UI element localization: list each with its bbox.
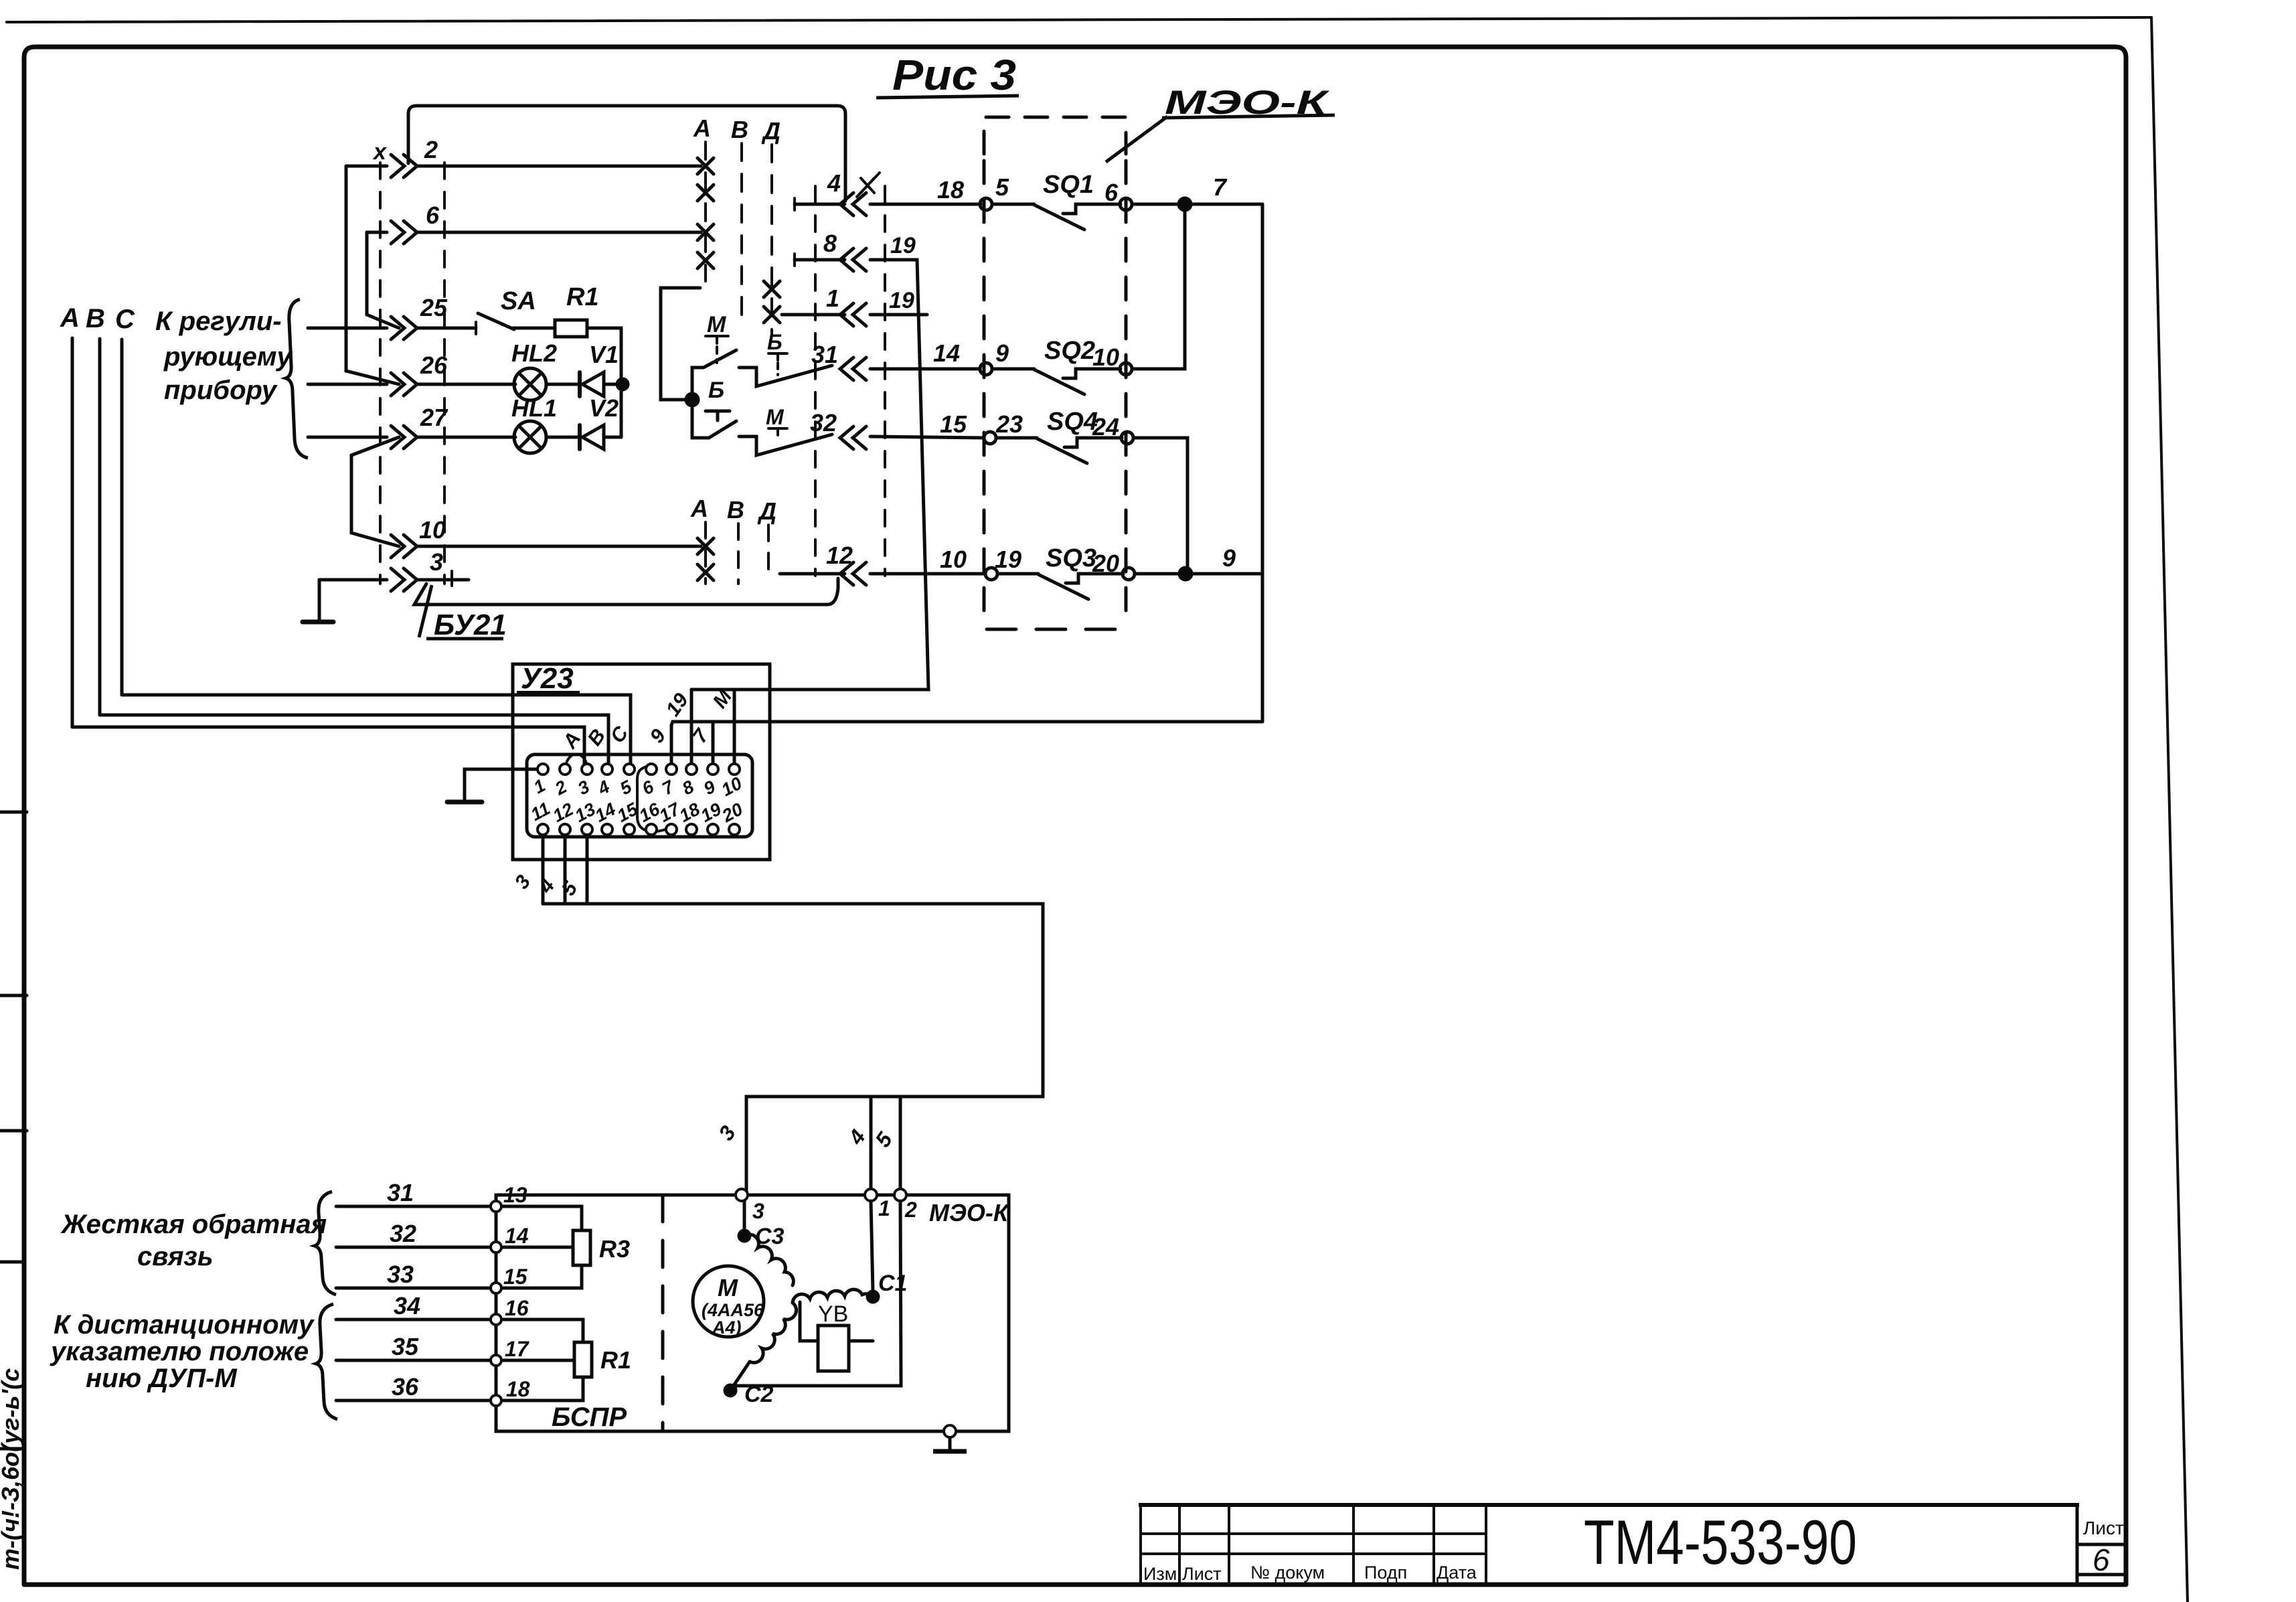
- fold tick 1: [0, 811, 27, 814]
- wire 17: [501, 1359, 574, 1362]
- pin 6 chevron: [391, 221, 417, 244]
- pin 8 tail tick: [793, 254, 796, 266]
- U23 pin strip: [527, 754, 752, 837]
- svg-text:Рис 3: Рис 3: [892, 51, 1016, 99]
- svg-text:x: x: [372, 139, 388, 165]
- brace for regulator wires: [286, 299, 308, 458]
- pin 4 chevron: [840, 193, 866, 216]
- svg-text:прибору: прибору: [164, 376, 278, 405]
- outer sheet top line: [7, 17, 2151, 22]
- wire 31: [336, 1205, 491, 1208]
- contact cross row6: [698, 224, 714, 240]
- contact M right tick: [768, 428, 787, 435]
- wire 36: [336, 1399, 491, 1403]
- pin 7 riser (net 9): [670, 725, 673, 765]
- MEO-K dashed box: [984, 117, 1126, 154]
- fold tick 3: [0, 1129, 27, 1133]
- wire V1 to junction: [604, 383, 623, 386]
- svg-text:К дистанционному: К дистанционному: [54, 1310, 315, 1340]
- ground at row3: [318, 580, 321, 621]
- lamp HL2: [514, 368, 546, 400]
- pin 12 chevron: [840, 562, 866, 585]
- group bus 3-4-5 to motor: [543, 904, 1043, 1190]
- svg-text:В: В: [86, 304, 105, 333]
- terminal 23: [984, 432, 996, 444]
- fold tick 4: [0, 1261, 24, 1264]
- wire V2 to junction: [604, 436, 621, 439]
- svg-text:31: 31: [811, 341, 838, 368]
- drop wire 5: [899, 1097, 902, 1189]
- svg-text:20: 20: [1092, 550, 1119, 577]
- svg-text:4: 4: [827, 169, 841, 197]
- BSPR terminals: [491, 1189, 956, 1437]
- contact cross row2: [698, 158, 714, 174]
- wire net from pin3 to connector 12: [414, 578, 838, 605]
- pin 13 drop: [586, 835, 589, 904]
- svg-text:Изм.: Изм.: [1143, 1564, 1182, 1584]
- outer sheet right line: [2151, 17, 2188, 1602]
- resistor R1 (upper): [555, 320, 587, 337]
- terminal 9: [980, 363, 992, 375]
- wire row12 to terminal: [870, 572, 985, 576]
- svg-text:9: 9: [995, 339, 1009, 367]
- pin 27 chevron: [391, 426, 417, 449]
- svg-text:М: М: [766, 405, 785, 429]
- svg-text:Лист: Лист: [1182, 1564, 1222, 1584]
- svg-text:В: В: [727, 496, 744, 524]
- contact column A dashed: [704, 142, 707, 281]
- switch SQ2: [992, 368, 1034, 371]
- dashed divider: [661, 1195, 665, 1431]
- contact column D dashed: [770, 145, 773, 335]
- pin 1 chevron: [840, 303, 866, 326]
- jumper pins 2-3: [566, 754, 586, 764]
- terminal 5: [980, 198, 992, 210]
- wire SQ3 to node9: [1135, 572, 1179, 576]
- wire HL2 to V1: [546, 383, 581, 386]
- svg-text:R1: R1: [566, 283, 599, 311]
- node bracket junction: [686, 394, 698, 406]
- pin 4 tail: [795, 203, 845, 206]
- svg-text:34: 34: [394, 1292, 420, 1319]
- svg-text:SQ2: SQ2: [1044, 337, 1095, 365]
- svg-text:3: 3: [752, 1199, 764, 1223]
- svg-text:33: 33: [387, 1261, 414, 1288]
- svg-text:ТМ4-533-90: ТМ4-533-90: [1584, 1507, 1857, 1577]
- svg-text:27: 27: [420, 404, 448, 431]
- contact M right (row32): [739, 434, 832, 455]
- wire R3 to 15: [501, 1265, 582, 1288]
- switch SA: [478, 313, 514, 329]
- wire 14: [501, 1246, 573, 1249]
- wire terminal2 down and to C2: [736, 1201, 901, 1386]
- svg-text:Б: Б: [767, 330, 783, 354]
- pin 2 chevron: [391, 155, 417, 177]
- pin 12 tail: [780, 572, 845, 576]
- node 7 junction: [1179, 198, 1191, 210]
- wire phase A vertical: [71, 338, 74, 727]
- svg-text:14: 14: [933, 339, 960, 367]
- svg-text:HL1: HL1: [511, 394, 557, 422]
- contact cross D2: [764, 307, 780, 323]
- svg-text:36: 36: [392, 1373, 419, 1400]
- terminal 24: [1121, 432, 1133, 444]
- contact B lower: [692, 401, 709, 438]
- wire row3 stub: [418, 578, 469, 582]
- svg-text:т-(ч!-З,6о(уг-ь'(с: т-(ч!-З,6о(уг-ь'(с: [0, 1368, 24, 1570]
- svg-text:HL2: HL2: [511, 339, 557, 367]
- terminal 20: [1123, 568, 1135, 580]
- svg-text:R1: R1: [600, 1346, 631, 1374]
- wire SQ1 to node 7: [1132, 203, 1179, 206]
- svg-text:А: А: [60, 303, 80, 333]
- node 9 junction: [1179, 568, 1192, 580]
- svg-text:35: 35: [392, 1333, 419, 1360]
- contact M upper tick: [706, 336, 728, 343]
- wire SQ1 row left: [870, 203, 981, 206]
- wire row10 to contact column A: [418, 545, 701, 548]
- svg-text:М: М: [707, 312, 726, 337]
- pin 25 chevron: [391, 317, 417, 339]
- svg-text:Б: Б: [708, 378, 724, 403]
- svg-text:А: А: [690, 495, 708, 522]
- pin 3 chevron: [391, 568, 417, 591]
- wire row27 to lamp HL1: [418, 436, 515, 439]
- svg-text:9: 9: [1222, 544, 1236, 572]
- ground wire to pin1: [465, 769, 538, 801]
- svg-text:12: 12: [826, 542, 853, 569]
- sheet number box: [2077, 1505, 2126, 1585]
- resistor R1 (BSPR): [574, 1342, 592, 1377]
- svg-text:А: А: [693, 114, 711, 142]
- lower contact cross mate: [698, 564, 714, 580]
- contact B lower tick: [706, 411, 730, 420]
- wire row25 stub: [418, 327, 476, 330]
- winding node to C2: [750, 1303, 797, 1362]
- motor M circle: [693, 1266, 764, 1337]
- svg-text:нию ДУП-М: нию ДУП-М: [86, 1364, 238, 1393]
- wire 34: [336, 1318, 491, 1321]
- svg-text:SQ1: SQ1: [1043, 171, 1094, 199]
- pin 8 chevron: [840, 248, 866, 271]
- svg-text:5: 5: [995, 173, 1009, 201]
- svg-text:14: 14: [505, 1224, 529, 1248]
- pin 12 drop: [564, 835, 567, 904]
- node junction V1: [617, 379, 628, 390]
- diode V2: [582, 425, 604, 449]
- svg-text:В: В: [731, 116, 748, 143]
- svg-text:С3: С3: [755, 1224, 785, 1249]
- pin 1 tail: [782, 313, 845, 317]
- svg-text:19: 19: [889, 288, 914, 313]
- svg-text:К регули-: К регули-: [155, 307, 282, 336]
- svg-text:Жесткая обратная: Жесткая обратная: [60, 1210, 327, 1239]
- wire pin2 down link: [346, 166, 399, 384]
- contact cross row2 mate: [698, 185, 714, 201]
- winding node to C1: [793, 1289, 873, 1303]
- diode V1: [582, 372, 604, 396]
- pin 8 riser (net 19): [690, 690, 693, 765]
- node C1: [868, 1291, 878, 1302]
- pin 8 tail: [795, 258, 845, 262]
- BSPR/MEO-K box: [496, 1195, 1009, 1431]
- svg-text:6: 6: [2093, 1542, 2110, 1577]
- svg-text:С: С: [115, 305, 135, 334]
- fold tick 2: [0, 994, 27, 997]
- svg-text:7: 7: [1213, 173, 1228, 201]
- fold tick 5: [0, 1447, 24, 1451]
- wire SQ4 down to SQ3: [1133, 438, 1187, 574]
- U23 box: [513, 664, 770, 860]
- wire node7 to right bus: [1191, 203, 1262, 206]
- node C2: [725, 1385, 736, 1396]
- wire node7 down to SQ2: [1132, 210, 1185, 369]
- wire phase B vertical: [98, 339, 102, 715]
- net 9 horizontal bus: [671, 722, 1262, 725]
- node C3: [739, 1230, 750, 1241]
- pin 9 riser: [712, 722, 715, 765]
- dashed boundary left: [814, 186, 817, 576]
- svg-text:3: 3: [430, 548, 443, 576]
- svg-text:М: М: [718, 1274, 738, 1301]
- pin 26 chevron: [391, 373, 417, 396]
- wire row27 input: [308, 436, 387, 439]
- svg-text:V2: V2: [589, 394, 619, 422]
- dashed column right of BU21: [443, 163, 446, 584]
- jumper pins 6-17: [637, 767, 665, 831]
- svg-text:связь: связь: [137, 1242, 214, 1271]
- svg-text:SA: SA: [501, 287, 536, 315]
- svg-text:А4): А4): [712, 1317, 742, 1338]
- drop wire 4: [870, 1097, 873, 1189]
- svg-text:6: 6: [426, 202, 440, 229]
- title block top edge: [1141, 1503, 2077, 1507]
- lamp HL1: [514, 421, 546, 453]
- svg-text:23: 23: [995, 410, 1023, 438]
- pin 31 chevron: [840, 357, 866, 380]
- wire row32 to terminal: [870, 436, 984, 438]
- svg-text:18: 18: [937, 176, 964, 204]
- svg-text:31: 31: [387, 1179, 414, 1206]
- contact cross D1: [764, 281, 780, 297]
- terminal 10: [1120, 363, 1132, 375]
- tick row25 stub end: [475, 322, 477, 334]
- svg-text:R3: R3: [599, 1235, 630, 1263]
- terminals on top edge: [736, 1189, 748, 1201]
- wire row1 joins riser: [870, 313, 927, 317]
- svg-text:БУ21: БУ21: [434, 609, 507, 641]
- contact cross row6 mate: [698, 252, 714, 268]
- svg-text:Д: Д: [761, 117, 781, 145]
- wire phase C vertical: [120, 339, 124, 695]
- wire 35: [336, 1359, 491, 1362]
- svg-text:YB: YB: [818, 1301, 848, 1327]
- lower contact cross row10: [698, 538, 714, 554]
- switch SQ3: [997, 572, 1038, 576]
- svg-text:SQ4: SQ4: [1047, 408, 1098, 436]
- svg-text:6: 6: [1104, 179, 1119, 206]
- svg-text:24: 24: [1092, 413, 1119, 440]
- svg-text:С1: С1: [878, 1271, 907, 1296]
- MEO-K leader line: [1106, 116, 1167, 162]
- pin 4 tail tick: [793, 198, 796, 210]
- wire 32: [336, 1246, 491, 1249]
- terminal 19: [985, 568, 997, 580]
- svg-text:17: 17: [505, 1337, 530, 1361]
- wire net19 from row8 down to U23: [691, 260, 928, 690]
- wire 13 to R3: [501, 1206, 582, 1230]
- svg-text:1: 1: [826, 285, 839, 312]
- wire pin6 tail: [367, 231, 387, 234]
- wire node9 to right bus: [1192, 572, 1262, 576]
- svg-text:Д: Д: [757, 497, 776, 525]
- svg-text:8: 8: [823, 230, 837, 257]
- wire YB left to winding: [800, 1302, 818, 1341]
- contact B right (row31): [739, 366, 832, 386]
- terminal 6: [1120, 198, 1132, 210]
- lower column D dashed: [767, 525, 770, 581]
- U23 bottom pins: [538, 824, 740, 835]
- ground at MEO-K: [933, 1437, 967, 1451]
- wire top bus from pin2 to connector 4: [408, 106, 845, 201]
- svg-text:10: 10: [940, 546, 967, 573]
- svg-text:16: 16: [505, 1296, 529, 1320]
- svg-text:V1: V1: [589, 341, 619, 368]
- svg-text:рующему: рующему: [163, 342, 293, 372]
- TITLE BLOCK: [1141, 1505, 2126, 1585]
- wire terminal1 down to C1: [871, 1201, 873, 1291]
- wire phase B horizontal to U23 pin4: [100, 715, 608, 765]
- tick row3 stub end: [450, 571, 453, 586]
- svg-text:С2: С2: [744, 1382, 774, 1407]
- svg-text:2: 2: [424, 136, 438, 163]
- x mark at pin4: [857, 173, 880, 197]
- svg-text:Дата: Дата: [1437, 1563, 1477, 1583]
- svg-text:18: 18: [506, 1377, 530, 1401]
- svg-text:2: 2: [904, 1198, 917, 1222]
- left brace lower: [316, 1304, 337, 1419]
- wire row26 to lamp HL2: [418, 383, 515, 386]
- svg-text:15: 15: [503, 1265, 528, 1289]
- svg-text:26: 26: [420, 351, 448, 379]
- svg-text:25: 25: [420, 294, 448, 321]
- wire winding to C2: [730, 1362, 750, 1390]
- revision table: [1141, 1505, 1486, 1585]
- wire row6 to contact column A: [418, 231, 701, 234]
- svg-text:№ докум: № докум: [1250, 1563, 1325, 1583]
- svg-text:10: 10: [1092, 343, 1119, 371]
- pin 32 chevron: [840, 426, 866, 449]
- U23 top pins: [538, 764, 740, 775]
- wire phase C horizontal to U23 pin5: [122, 695, 631, 765]
- wire pin2 tail: [346, 165, 387, 168]
- svg-text:32: 32: [390, 1220, 416, 1247]
- svg-text:БСПР: БСПР: [552, 1403, 627, 1432]
- wire row2 to contact column A: [418, 165, 701, 168]
- wire phase A horizontal to U23 pin3: [72, 727, 584, 765]
- svg-text:Подп: Подп: [1364, 1563, 1407, 1583]
- wire pin27 to pin10 link: [351, 437, 399, 546]
- svg-text:У23: У23: [521, 662, 574, 695]
- wire 16 to R1b: [501, 1319, 583, 1342]
- dashed boundary right: [884, 186, 886, 576]
- wire YB right to C1: [849, 1340, 873, 1343]
- lower column V dashed: [737, 524, 740, 584]
- wire right bus vertical: [1261, 204, 1264, 722]
- pin 10 chevron: [391, 535, 417, 558]
- winding C3 to node: [744, 1234, 793, 1285]
- svg-text:13: 13: [503, 1183, 527, 1207]
- left brace upper: [315, 1192, 336, 1295]
- svg-text:32: 32: [810, 409, 837, 436]
- ground at U23: [447, 800, 482, 805]
- switch SQ1: [992, 203, 1034, 206]
- U23 top pin numbers: [530, 773, 745, 801]
- svg-text:указателю положе: указателю положе: [50, 1337, 309, 1366]
- switch SQ4: [996, 436, 1037, 440]
- lower column A dashed: [704, 522, 707, 584]
- wire pin6 down link: [367, 232, 399, 328]
- contact M upper: [692, 368, 704, 398]
- wire R1 to corner: [587, 328, 621, 437]
- svg-text:1: 1: [878, 1196, 890, 1220]
- contact column V dashed: [740, 143, 743, 321]
- bracket wire: [661, 288, 700, 400]
- wire row26 input: [308, 383, 387, 386]
- pin 10 riser (net M): [733, 690, 736, 765]
- dashed column left of BU21: [379, 163, 382, 584]
- svg-text:10: 10: [419, 516, 446, 544]
- wire row25 input: [308, 327, 387, 330]
- svg-text:Лист: Лист: [2083, 1518, 2124, 1538]
- wire HL1 to V2: [546, 436, 581, 439]
- resistor R3: [573, 1230, 590, 1265]
- svg-text:SQ3: SQ3: [1046, 544, 1096, 572]
- svg-text:19: 19: [890, 233, 916, 258]
- U23 bottom pin numbers: [527, 798, 746, 826]
- wire terminal3 to C3: [743, 1201, 746, 1232]
- svg-text:15: 15: [940, 410, 967, 438]
- pin 11 drop: [542, 835, 545, 904]
- wire R1b to 18: [501, 1377, 583, 1400]
- wire row31 to terminal: [870, 368, 980, 371]
- svg-text:19: 19: [995, 546, 1021, 573]
- wire row3 ground lead: [319, 578, 387, 582]
- ground terminal: [944, 1425, 956, 1437]
- contact B right tick: [768, 353, 787, 360]
- wire 33: [336, 1287, 491, 1290]
- svg-text:МЭО-К: МЭО-К: [929, 1199, 1010, 1226]
- wire SA to R1: [513, 327, 555, 330]
- brake YB box: [818, 1326, 849, 1371]
